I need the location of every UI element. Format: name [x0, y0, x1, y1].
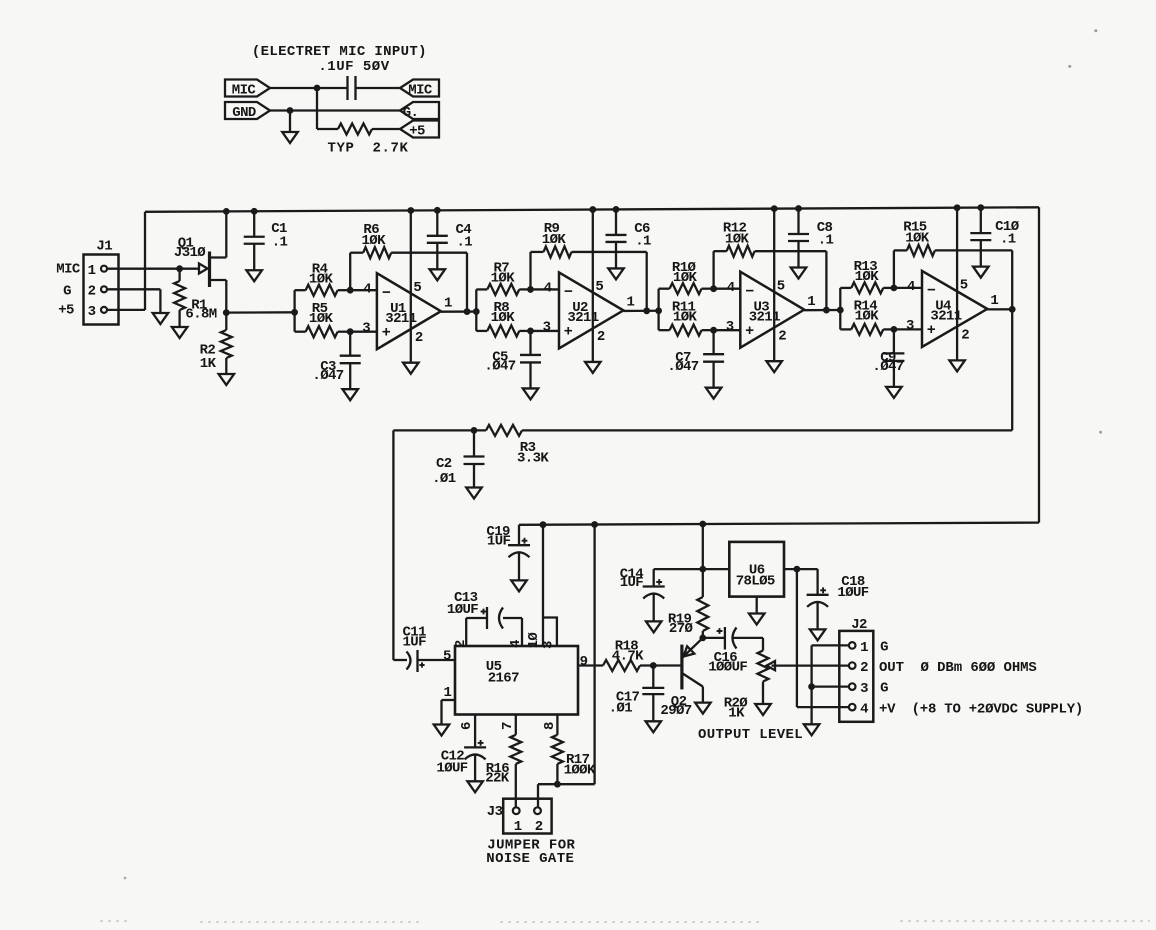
- pin J3-1: [513, 807, 520, 814]
- wire U5 pin2 riser: [465, 618, 467, 646]
- node C6 on rail: [613, 206, 620, 213]
- ic U5 2167: [455, 646, 578, 715]
- wire gnd stem: [289, 111, 291, 133]
- wire +V riser to J2 pin4: [796, 569, 798, 707]
- node U3 output: [823, 307, 830, 314]
- svg-text:1: 1: [443, 685, 451, 701]
- node pin5 on rail: [771, 205, 778, 212]
- svg-text:.1: .1: [456, 234, 472, 250]
- svg-text:4: 4: [363, 281, 371, 297]
- svg-text:2: 2: [778, 328, 786, 344]
- wire U5 pin8: [556, 715, 558, 735]
- wire U6 gnd pin: [756, 597, 758, 614]
- wire 5V rail bottom: [519, 523, 1039, 525]
- svg-text:27Ø: 27Ø: [669, 621, 694, 637]
- ground: [219, 374, 235, 385]
- wire pin3 to op-amp: [714, 329, 741, 331]
- ground: [766, 361, 782, 372]
- svg-text:.Ø47: .Ø47: [872, 359, 903, 375]
- node C2 junction: [471, 427, 478, 434]
- flag +5 right: [400, 121, 439, 138]
- svg-text:+V (+8 TO +2ØVDC SUPPLY): +V (+8 TO +2ØVDC SUPPLY): [879, 701, 1083, 717]
- svg-text:5: 5: [777, 278, 785, 294]
- svg-text:3: 3: [906, 318, 914, 334]
- node R19 bottom / Q2 emitter: [699, 635, 706, 642]
- capacitor C10 .1 decoupling: [980, 208, 982, 234]
- svg-text:8: 8: [542, 722, 558, 730]
- wire U5 pin4 riser: [521, 618, 523, 646]
- node C17 junction: [650, 662, 657, 669]
- transistor Q2 2907: [680, 645, 683, 690]
- node pin5 on rail: [407, 207, 414, 214]
- ground: [646, 621, 662, 632]
- capacitor C14 1UF: [643, 585, 665, 587]
- wire U2 output: [623, 310, 658, 312]
- svg-text:3: 3: [726, 319, 734, 335]
- svg-text:3: 3: [860, 681, 868, 697]
- ground: [646, 721, 662, 732]
- svg-text:3211: 3211: [567, 310, 598, 326]
- svg-text:−: −: [382, 285, 391, 302]
- svg-text:+: +: [382, 324, 391, 341]
- svg-text:−: −: [745, 283, 754, 300]
- svg-text:1ØK: 1ØK: [491, 310, 516, 326]
- svg-text:5: 5: [960, 278, 968, 294]
- svg-text:1ØK: 1ØK: [491, 271, 516, 287]
- svg-text:−: −: [564, 284, 573, 301]
- capacitor C6 .1 decoupling: [615, 209, 617, 235]
- svg-text:GND: GND: [232, 105, 256, 121]
- capacitor C7 .047: [712, 330, 714, 354]
- node pin5 on rail: [954, 204, 961, 211]
- resistor R18 4.7K: [603, 660, 640, 671]
- pin J2-1: [849, 642, 856, 649]
- svg-text:1: 1: [88, 263, 96, 279]
- wire pin3 to op-amp: [531, 330, 560, 332]
- ground: [511, 580, 527, 591]
- ground: [467, 781, 483, 792]
- svg-text:.1: .1: [818, 233, 834, 249]
- svg-text:1ØK: 1ØK: [905, 231, 930, 247]
- ground: [153, 313, 169, 324]
- wire pin3 to op-amp: [894, 328, 922, 330]
- svg-text:3211: 3211: [749, 309, 780, 325]
- wire J2 pin3: [812, 685, 849, 687]
- ground: [434, 725, 450, 736]
- ground: [466, 488, 482, 499]
- ground: [523, 388, 539, 399]
- connector J2: [839, 631, 873, 722]
- svg-text:4.7K: 4.7K: [612, 648, 644, 664]
- wire J1 pin2: [107, 288, 160, 290]
- resistor R17 100K: [552, 735, 563, 764]
- wire U5 pin9: [578, 664, 603, 666]
- wire U4 pin5/pin2 supply: [956, 208, 958, 361]
- resistor R7 10K: [476, 288, 487, 290]
- svg-text:4: 4: [860, 702, 868, 718]
- svg-text:1: 1: [444, 295, 452, 311]
- svg-text:.Ø47: .Ø47: [667, 359, 698, 375]
- svg-text:+: +: [927, 322, 936, 339]
- node U1 pin3: [347, 328, 354, 335]
- svg-text:6.8M: 6.8M: [185, 307, 216, 323]
- svg-text:1ØK: 1ØK: [855, 309, 880, 325]
- node C4 on rail: [434, 207, 441, 214]
- wire +5V riser from J1 pin3: [144, 212, 146, 310]
- wire pin4 to op-amp: [531, 288, 560, 290]
- wire GND row: [270, 109, 400, 111]
- ground: [949, 360, 965, 371]
- wire J1 pin1 to Q1 gate: [107, 268, 199, 270]
- wire U6 in pin: [784, 568, 818, 570]
- pin J1-3: [101, 307, 107, 313]
- node pin5 on rail: [589, 206, 596, 213]
- capacitor C1 .1: [253, 211, 255, 237]
- svg-text:1ØK: 1ØK: [725, 231, 750, 247]
- node mic junction: [314, 85, 321, 92]
- node C18 junction: [794, 566, 801, 573]
- svg-text:.Ø47: .Ø47: [484, 359, 515, 375]
- flag MIC left: [225, 80, 270, 97]
- pin J2-2: [849, 662, 856, 669]
- node R17 bottom: [554, 781, 561, 788]
- svg-text:J31Ø: J31Ø: [174, 245, 206, 261]
- svg-text:TYP 2.7K: TYP 2.7K: [327, 141, 408, 157]
- wire pin4 to op-amp: [894, 287, 922, 289]
- ground: [706, 388, 722, 399]
- svg-text:.1: .1: [272, 235, 288, 251]
- svg-text:1ØK: 1ØK: [309, 271, 334, 287]
- svg-text:5: 5: [413, 280, 421, 296]
- wire source to stage1: [226, 311, 294, 314]
- wire MIC row: [270, 87, 348, 89]
- ground: [585, 362, 601, 373]
- wire U3 input bracket: [657, 289, 659, 331]
- svg-text:1ØØK: 1ØØK: [564, 762, 596, 778]
- wire U1 input bracket: [293, 290, 295, 332]
- svg-text:J3: J3: [487, 804, 503, 820]
- capacitor .1UF coupling: [346, 76, 348, 100]
- pin J1-1: [101, 266, 107, 272]
- wire U2 input bracket: [475, 289, 477, 331]
- wire U4 output: [987, 308, 1012, 310]
- svg-text:2167: 2167: [488, 671, 519, 687]
- potentiometer R20 1K OUTPUT LEVEL: [762, 638, 764, 651]
- svg-text:1ØK: 1ØK: [855, 269, 880, 285]
- resistor R15 10K feedback: [893, 250, 895, 288]
- node U3 input: [655, 307, 662, 314]
- ground: [755, 704, 771, 715]
- resistor R19 270: [702, 569, 704, 597]
- svg-text:2: 2: [453, 640, 469, 648]
- wire to J3 pin2: [538, 783, 557, 785]
- svg-text:G: G: [63, 283, 71, 299]
- svg-text:1K: 1K: [200, 356, 217, 372]
- wire U4 input bracket: [839, 288, 841, 330]
- resistor R14 10K: [840, 328, 851, 330]
- flag G right: [400, 102, 439, 119]
- wire pin3 to op-amp: [350, 331, 377, 333]
- svg-text:22K: 22K: [485, 771, 510, 787]
- resistor R5 10K: [295, 331, 306, 333]
- node U4 pin4: [891, 285, 898, 292]
- svg-text:J2: J2: [851, 617, 867, 633]
- svg-text:.1: .1: [635, 234, 651, 250]
- node gnd junction: [287, 107, 294, 114]
- svg-text:2: 2: [535, 819, 543, 835]
- op-amp U4 3211: [922, 271, 987, 347]
- capacitor C8 .1 decoupling: [797, 209, 799, 235]
- svg-text:7: 7: [500, 722, 516, 730]
- svg-text:6: 6: [459, 722, 475, 730]
- wire R18 to Q2 base: [640, 664, 682, 666]
- wire J2 pin1 ground link: [812, 644, 849, 646]
- wire U5 pin1: [442, 699, 456, 701]
- svg-text:MIC: MIC: [232, 82, 257, 98]
- svg-text:1: 1: [514, 819, 522, 835]
- svg-text:4: 4: [727, 280, 735, 296]
- capacitor C9 .047: [893, 329, 895, 353]
- ground: [608, 268, 624, 279]
- node U2 pin4: [527, 286, 534, 293]
- svg-text:1ØUF: 1ØUF: [447, 602, 478, 618]
- svg-text:4: 4: [544, 281, 552, 297]
- node U1 pin4: [347, 287, 354, 294]
- wire U2 pin5/pin2 supply: [592, 210, 594, 362]
- svg-text:1ØUF: 1ØUF: [837, 585, 868, 601]
- svg-text:2: 2: [961, 328, 969, 344]
- wire U3 pin5/pin2 supply: [773, 209, 775, 362]
- wire Q1 source: [210, 279, 227, 281]
- pin J3-2: [534, 807, 541, 814]
- svg-text:2: 2: [597, 329, 605, 345]
- wire U5 pin10 riser: [542, 525, 544, 646]
- ground: [886, 387, 902, 398]
- svg-text:.Ø47: .Ø47: [312, 368, 343, 384]
- svg-text:1: 1: [626, 295, 634, 311]
- node pin10 on 5V rail: [540, 521, 547, 528]
- regulator U6 78L05: [729, 542, 784, 597]
- resistor R16 22K: [510, 735, 521, 764]
- svg-text:−: −: [927, 283, 936, 300]
- node pin3 gnd junction: [808, 683, 815, 690]
- connector J3: [503, 799, 551, 834]
- svg-text:9: 9: [580, 654, 588, 670]
- ground: [342, 389, 358, 400]
- ground: [430, 269, 446, 280]
- ground: [282, 132, 298, 143]
- capacitor C19 1UF: [518, 525, 520, 545]
- resistor R10 10K: [659, 288, 670, 290]
- scan artifacts: [100, 921, 1150, 922]
- svg-text:1: 1: [990, 293, 998, 309]
- svg-text:MIC: MIC: [56, 261, 81, 277]
- node U3 pin4: [710, 285, 717, 292]
- svg-text:5: 5: [443, 649, 451, 665]
- resistor R4 10K: [295, 289, 306, 291]
- node U4 pin3: [891, 326, 898, 333]
- svg-text:+: +: [745, 323, 754, 340]
- capacitor C13 10UF: [466, 617, 486, 619]
- svg-text:1UF: 1UF: [402, 635, 426, 651]
- pin J1-2: [101, 286, 107, 292]
- node U2 input: [473, 308, 480, 315]
- svg-text:OUTPUT LEVEL: OUTPUT LEVEL: [698, 727, 803, 743]
- svg-text:1ØØUF: 1ØØUF: [708, 660, 747, 676]
- wiper arrow: [772, 664, 850, 666]
- svg-text:5: 5: [595, 279, 603, 295]
- capacitor C17 .01: [652, 666, 654, 688]
- wire pin4 to op-amp: [350, 289, 377, 291]
- node C10 on rail: [977, 204, 984, 211]
- svg-text:1ØK: 1ØK: [673, 270, 698, 286]
- ground: [749, 614, 765, 625]
- ground: [172, 327, 188, 338]
- svg-text:1: 1: [807, 294, 815, 310]
- svg-text:OUT Ø DBm 6ØØ OHMS: OUT Ø DBm 6ØØ OHMS: [879, 660, 1037, 676]
- capacitor C11 1UF: [393, 659, 407, 661]
- pin J2-3: [849, 683, 856, 690]
- svg-text:NOISE GATE: NOISE GATE: [486, 851, 574, 867]
- capacitor C5 .047: [529, 331, 531, 355]
- resistor TYP 2.7K: [338, 124, 372, 135]
- svg-text:1UF: 1UF: [620, 575, 644, 591]
- wire +5V rail right drop: [1038, 207, 1040, 522]
- ground: [403, 363, 419, 374]
- svg-text:1ØK: 1ØK: [673, 309, 698, 325]
- resistor R6 10K feedback: [349, 253, 351, 290]
- wire left drop to C11: [392, 430, 394, 660]
- ground: [973, 267, 989, 278]
- svg-text:.Ø1: .Ø1: [432, 471, 456, 487]
- wire to resistor row: [316, 88, 318, 129]
- capacitor C4 .1 decoupling: [436, 210, 438, 236]
- wire U6 out riser: [702, 524, 704, 569]
- flag GND left: [225, 102, 270, 119]
- svg-text:3: 3: [88, 304, 96, 320]
- ground: [810, 629, 826, 640]
- wire +5V top rail: [145, 207, 1039, 212]
- node U1 output: [464, 308, 471, 315]
- wire R3 row: [522, 429, 1012, 431]
- resistor R3 3.3K: [486, 425, 522, 436]
- wire U5 pin3 bracket: [543, 618, 557, 647]
- svg-text:1ØUF: 1ØUF: [436, 760, 467, 776]
- ground: [695, 703, 711, 714]
- svg-text:G.: G.: [403, 105, 419, 121]
- svg-text:1UF: 1UF: [487, 534, 511, 550]
- op-amp U2 3211: [559, 272, 623, 348]
- op-amp U3 3211: [740, 272, 804, 348]
- capacitor C18 10UF: [816, 569, 818, 595]
- op-amp U1 3211: [377, 273, 441, 349]
- capacitor C3 .047: [349, 332, 351, 356]
- wire J2 pin4 +V: [797, 706, 849, 708]
- svg-text:.Ø1: .Ø1: [609, 701, 633, 717]
- svg-text:4: 4: [907, 279, 915, 295]
- node C1 on rail: [251, 208, 258, 215]
- svg-text:MIC: MIC: [408, 82, 433, 98]
- wire U3 output: [804, 309, 840, 311]
- node U4 output: [1009, 306, 1016, 313]
- node riser on 5V rail: [591, 521, 598, 528]
- ground: [246, 270, 262, 281]
- svg-text:2: 2: [415, 330, 423, 346]
- svg-text:3: 3: [541, 641, 557, 649]
- wire U5 pin7: [515, 715, 517, 735]
- pin J2-4: [849, 704, 856, 711]
- wire C14 branch: [654, 568, 730, 570]
- node U6 on 5V rail: [699, 521, 706, 528]
- capacitor C16 100UF: [703, 637, 725, 639]
- svg-text:29Ø7: 29Ø7: [660, 703, 691, 719]
- wire U1 pin5/pin2 supply: [410, 210, 412, 362]
- svg-text:3: 3: [543, 320, 551, 336]
- svg-text:J1: J1: [96, 238, 112, 254]
- capacitor C2 .01: [473, 430, 475, 456]
- wire J1 pin3 to riser: [107, 309, 145, 311]
- node U6 out: [699, 566, 706, 573]
- svg-text:C2: C2: [436, 456, 452, 472]
- resistor R12 10K feedback: [712, 251, 714, 289]
- svg-text:1ØK: 1ØK: [309, 311, 334, 327]
- ground: [804, 724, 820, 735]
- svg-text:3: 3: [362, 320, 370, 336]
- node U1 input: [291, 309, 298, 316]
- wire U5 pin6: [474, 715, 476, 748]
- svg-text:+: +: [564, 324, 573, 341]
- svg-text:1ØK: 1ØK: [542, 232, 567, 248]
- resistor R13 10K: [840, 287, 851, 289]
- node U2 pin3: [527, 328, 534, 335]
- node U4 input: [837, 307, 844, 314]
- svg-text:2: 2: [860, 660, 868, 676]
- svg-text:.1: .1: [1000, 232, 1016, 248]
- svg-text:+5: +5: [409, 123, 425, 139]
- wire U4 output drop: [1011, 309, 1013, 430]
- resistor R11 10K: [659, 329, 670, 331]
- wire noise gate riser: [593, 524, 595, 784]
- node Q1 source: [223, 309, 230, 316]
- ground: [791, 268, 807, 279]
- svg-text:3211: 3211: [385, 311, 416, 327]
- wire gnd stem: [810, 687, 812, 725]
- resistor R1 6.8M: [178, 269, 180, 281]
- node C8 on rail: [795, 205, 802, 212]
- svg-text:(ELECTRET MIC INPUT): (ELECTRET MIC INPUT): [252, 44, 427, 60]
- svg-text:G: G: [880, 681, 888, 697]
- svg-text:+5: +5: [58, 303, 74, 319]
- svg-text:1K: 1K: [728, 705, 745, 721]
- svg-text:.1UF 5ØV: .1UF 5ØV: [318, 59, 389, 75]
- svg-text:2: 2: [88, 284, 96, 300]
- flag MIC right: [400, 80, 439, 97]
- node U3 pin3: [710, 327, 717, 334]
- svg-text:78LØ5: 78LØ5: [736, 573, 775, 589]
- capacitor C12 10UF: [464, 746, 486, 748]
- resistor R2 1K: [225, 313, 227, 330]
- node Q1 drain on rail: [223, 208, 230, 215]
- resistor R9 10K feedback: [529, 252, 531, 290]
- svg-text:1ØK: 1ØK: [361, 233, 386, 249]
- wire pin4 to op-amp: [714, 288, 741, 290]
- resistor R8 10K: [476, 330, 487, 332]
- svg-text:G: G: [880, 640, 888, 656]
- node U2 output: [643, 307, 650, 314]
- wire U1 output: [441, 310, 476, 312]
- svg-text:1: 1: [860, 640, 868, 656]
- connector J1: [84, 255, 119, 325]
